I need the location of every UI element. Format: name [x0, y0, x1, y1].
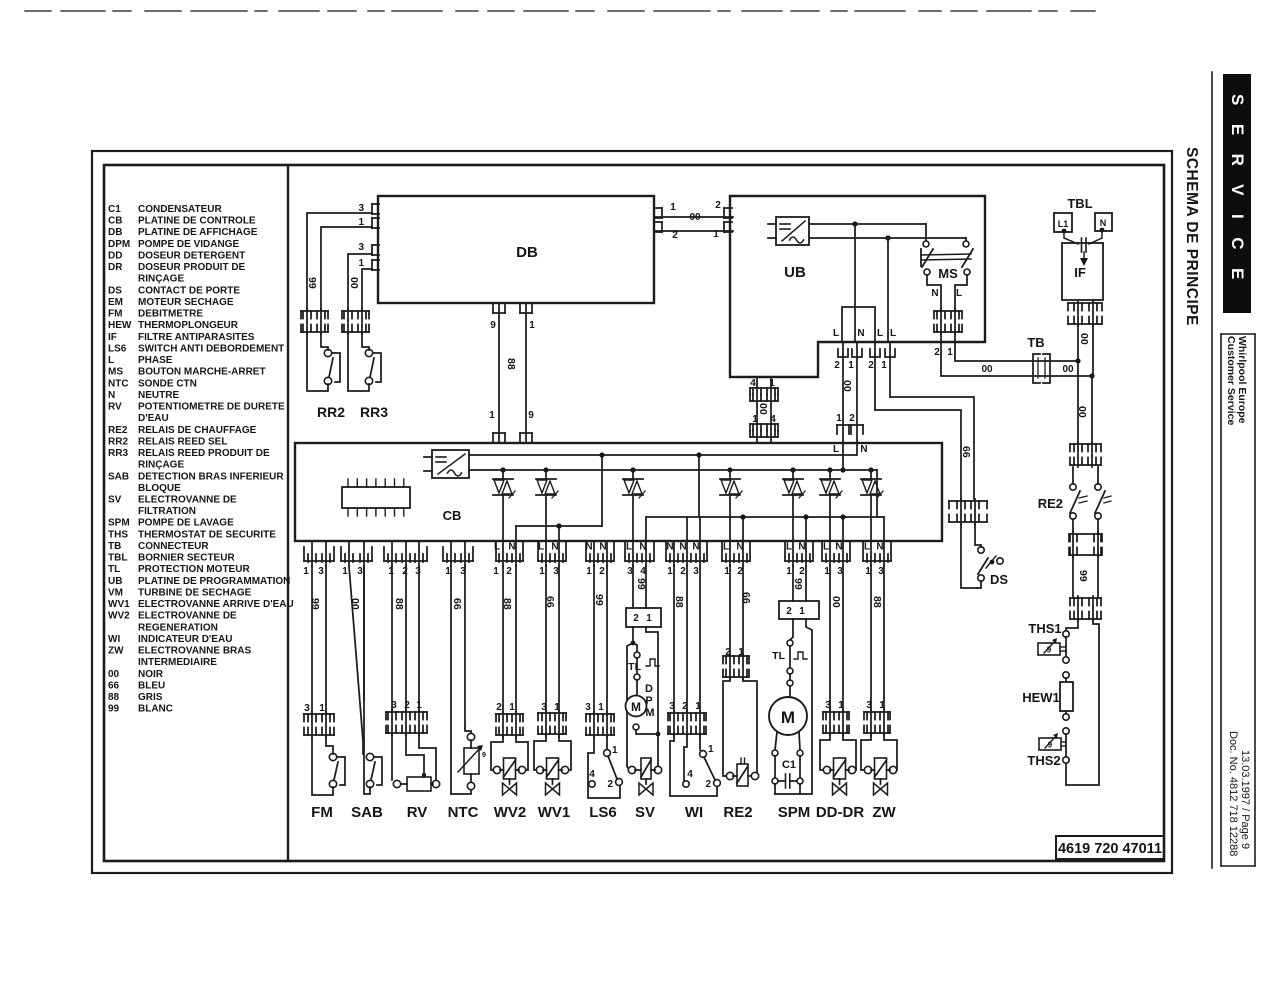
svg-text:THERMOSTAT DE SECURITE: THERMOSTAT DE SECURITE [138, 529, 276, 540]
svg-text:DOSEUR PRODUIT DE: DOSEUR PRODUIT DE [138, 262, 246, 273]
svg-text:ELECTROVANNE DE: ELECTROVANNE DE [138, 611, 237, 622]
svg-text:RELAIS REED SEL: RELAIS REED SEL [138, 436, 227, 447]
svg-text:1: 1 [881, 360, 887, 371]
svg-text:2: 2 [705, 779, 711, 790]
svg-text:N: N [679, 542, 686, 553]
svg-text:L: L [877, 328, 883, 339]
svg-text:FM: FM [108, 309, 122, 320]
svg-text:THS2: THS2 [1027, 753, 1060, 768]
svg-text:L1: L1 [1058, 219, 1069, 229]
svg-text:D'EAU: D'EAU [138, 413, 169, 424]
svg-text:REGENERATION: REGENERATION [138, 622, 218, 633]
svg-text:N: N [931, 288, 938, 299]
svg-text:TBL: TBL [1067, 196, 1092, 211]
svg-text:IF: IF [108, 332, 117, 343]
svg-text:BLOQUE: BLOQUE [138, 483, 181, 494]
svg-text:3: 3 [693, 566, 699, 577]
svg-text:L: L [890, 328, 896, 339]
svg-text:WV1: WV1 [108, 599, 130, 610]
svg-text:SPM: SPM [778, 804, 811, 821]
svg-text:3: 3 [318, 566, 324, 577]
svg-text:M: M [631, 700, 641, 714]
svg-text:TL: TL [628, 661, 641, 673]
svg-text:N: N [835, 542, 842, 553]
svg-text:RELAIS REED PRODUIT DE: RELAIS REED PRODUIT DE [138, 448, 270, 459]
svg-text:RE2: RE2 [1038, 496, 1063, 511]
svg-text:88: 88 [501, 598, 513, 610]
svg-text:1: 1 [529, 320, 535, 331]
svg-text:Doc. No. 4812 718 12288: Doc. No. 4812 718 12288 [1227, 731, 1239, 856]
svg-text:66: 66 [740, 592, 752, 604]
svg-text:RE2: RE2 [723, 804, 752, 821]
svg-text:RR3: RR3 [108, 448, 128, 459]
svg-text:9: 9 [528, 410, 534, 421]
svg-text:1: 1 [303, 566, 309, 577]
svg-text:TURBINE DE SECHAGE: TURBINE DE SECHAGE [138, 588, 252, 599]
svg-text:2: 2 [849, 413, 855, 424]
svg-text:L: L [823, 542, 829, 553]
svg-text:SPM: SPM [108, 518, 130, 529]
svg-text:1: 1 [947, 347, 953, 358]
svg-text:THS: THS [108, 529, 128, 540]
svg-text:PLATINE DE AFFICHAGE: PLATINE DE AFFICHAGE [138, 227, 258, 238]
svg-text:WV2: WV2 [108, 611, 130, 622]
svg-text:L: L [956, 288, 962, 299]
svg-text:FM: FM [311, 804, 333, 821]
svg-text:C1: C1 [108, 204, 121, 215]
svg-text:THS1: THS1 [1028, 621, 1061, 636]
svg-text:2: 2 [680, 566, 686, 577]
svg-text:GRIS: GRIS [138, 692, 163, 703]
svg-text:EM: EM [108, 297, 123, 308]
svg-text:SAB: SAB [108, 471, 129, 482]
svg-text:2: 2 [496, 702, 502, 713]
svg-text:00: 00 [757, 403, 769, 415]
svg-text:SV: SV [108, 495, 122, 506]
svg-text:WV2: WV2 [494, 804, 527, 821]
svg-text:2: 2 [834, 360, 840, 371]
svg-text:N: N [798, 542, 805, 553]
svg-text:88: 88 [871, 596, 883, 608]
svg-text:1: 1 [539, 566, 545, 577]
svg-text:N: N [692, 542, 699, 553]
svg-text:DR: DR [108, 262, 123, 273]
svg-text:TL: TL [772, 650, 785, 662]
svg-text:N: N [876, 542, 883, 553]
svg-text:99: 99 [309, 598, 321, 610]
svg-text:1: 1 [489, 410, 495, 421]
svg-text:66: 66 [960, 446, 972, 458]
svg-text:N: N [108, 390, 115, 401]
svg-text:00: 00 [830, 596, 842, 608]
svg-text:CB: CB [443, 508, 462, 523]
svg-text:SERVICE: SERVICE [1228, 94, 1247, 298]
svg-text:SWITCH ANTI DEBORDEMENT: SWITCH ANTI DEBORDEMENT [138, 343, 284, 354]
svg-text:L: L [786, 542, 792, 553]
svg-text:2: 2 [506, 566, 512, 577]
svg-text:DD-DR: DD-DR [816, 804, 864, 821]
svg-text:TB: TB [108, 541, 121, 552]
svg-text:RELAIS DE CHAUFFAGE: RELAIS DE CHAUFFAGE [138, 425, 257, 436]
svg-text:00: 00 [108, 669, 120, 680]
svg-text:POMPE DE VIDANGE: POMPE DE VIDANGE [138, 239, 239, 250]
svg-text:MS: MS [938, 266, 958, 281]
svg-text:POMPE DE LAVAGE: POMPE DE LAVAGE [138, 518, 234, 529]
svg-text:99: 99 [792, 578, 804, 590]
svg-text:TBL: TBL [108, 553, 127, 564]
svg-text:SAB: SAB [351, 804, 383, 821]
svg-text:DOSEUR DETERGENT: DOSEUR DETERGENT [138, 251, 245, 262]
svg-text:INDICATEUR D'EAU: INDICATEUR D'EAU [138, 634, 232, 645]
svg-text:N: N [666, 542, 673, 553]
svg-text:MS: MS [108, 367, 123, 378]
svg-text:L: L [864, 542, 870, 553]
svg-text:CB: CB [108, 216, 122, 227]
svg-text:CONNECTEUR: CONNECTEUR [138, 541, 209, 552]
svg-text:2: 2 [599, 566, 605, 577]
svg-text:TL: TL [108, 564, 120, 575]
svg-text:DS: DS [990, 572, 1008, 587]
svg-text:2: 2 [868, 360, 874, 371]
svg-text:N: N [1100, 218, 1107, 228]
svg-text:2: 2 [633, 613, 639, 624]
svg-text:LS6: LS6 [108, 343, 127, 354]
svg-text:L: L [108, 355, 114, 366]
svg-text:BLEU: BLEU [138, 680, 165, 691]
svg-text:00: 00 [981, 364, 993, 375]
svg-text:BLANC: BLANC [138, 704, 173, 715]
svg-text:88: 88 [393, 598, 405, 610]
svg-text:PHASE: PHASE [138, 355, 173, 366]
svg-text:2: 2 [404, 700, 410, 711]
svg-text:1: 1 [667, 566, 673, 577]
svg-text:00: 00 [1062, 364, 1074, 375]
svg-text:N: N [508, 542, 515, 553]
svg-text:L: L [723, 542, 729, 553]
svg-text:NEUTRE: NEUTRE [138, 390, 179, 401]
svg-text:2: 2 [607, 779, 613, 790]
svg-text:M: M [781, 708, 795, 727]
svg-text:L: L [538, 542, 544, 553]
svg-text:4619 720 47011: 4619 720 47011 [1058, 841, 1162, 857]
svg-text:RV: RV [108, 402, 122, 413]
svg-text:1: 1 [848, 360, 854, 371]
svg-text:3: 3 [585, 702, 591, 713]
svg-text:M: M [645, 707, 654, 719]
svg-text:NOIR: NOIR [138, 669, 164, 680]
svg-text:WI: WI [108, 634, 120, 645]
svg-text:ZW: ZW [108, 646, 124, 657]
svg-text:CONDENSATEUR: CONDENSATEUR [138, 204, 222, 215]
svg-text:MOTEUR SECHAGE: MOTEUR SECHAGE [138, 297, 234, 308]
svg-text:3: 3 [357, 566, 363, 577]
svg-text:66: 66 [451, 598, 463, 610]
svg-text:D: D [645, 683, 653, 695]
svg-text:POTENTIOMETRE DE DURETE: POTENTIOMETRE DE DURETE [138, 402, 285, 413]
svg-text:99: 99 [108, 704, 120, 715]
svg-text:PLATINE DE PROGRAMMATION: PLATINE DE PROGRAMMATION [138, 576, 290, 587]
svg-text:N: N [857, 328, 864, 339]
svg-text:UB: UB [108, 576, 122, 587]
svg-text:1: 1 [612, 745, 618, 756]
svg-text:DS: DS [108, 285, 122, 296]
svg-text:3: 3 [304, 703, 310, 714]
svg-text:DB: DB [108, 227, 122, 238]
svg-text:DB: DB [516, 244, 538, 261]
svg-text:66: 66 [544, 596, 556, 608]
svg-text:L: L [833, 328, 839, 339]
svg-text:RV: RV [407, 804, 428, 821]
svg-text:FILTRE ANTIPARASITES: FILTRE ANTIPARASITES [138, 332, 255, 343]
svg-text:66: 66 [108, 680, 120, 691]
svg-text:BOUTON MARCHE-ARRET: BOUTON MARCHE-ARRET [138, 367, 266, 378]
svg-text:N: N [599, 542, 606, 553]
svg-text:00: 00 [1078, 333, 1090, 345]
svg-text:RR3: RR3 [360, 404, 388, 420]
svg-text:L: L [494, 542, 500, 553]
svg-text:99: 99 [306, 277, 318, 289]
svg-text:PROTECTION MOTEUR: PROTECTION MOTEUR [138, 564, 250, 575]
svg-text:1: 1 [799, 606, 805, 617]
svg-text:WI: WI [685, 804, 703, 821]
svg-text:BORNIER SECTEUR: BORNIER SECTEUR [138, 553, 235, 564]
svg-text:N: N [860, 444, 867, 455]
svg-text:00: 00 [1076, 406, 1088, 418]
svg-text:9: 9 [490, 320, 496, 331]
svg-text:P: P [645, 695, 652, 707]
svg-text:Customer Service: Customer Service [1225, 336, 1237, 425]
svg-text:1: 1 [670, 202, 676, 213]
svg-text:13.03.1997 / Page 9: 13.03.1997 / Page 9 [1239, 750, 1251, 849]
svg-text:NTC: NTC [108, 378, 129, 389]
svg-text:4: 4 [687, 769, 693, 780]
svg-text:WV1: WV1 [538, 804, 571, 821]
svg-text:NTC: NTC [448, 804, 479, 821]
svg-text:1: 1 [493, 566, 499, 577]
svg-text:1: 1 [646, 613, 652, 624]
svg-text:LS6: LS6 [589, 804, 617, 821]
svg-text:1: 1 [713, 229, 719, 240]
svg-text:2: 2 [934, 347, 940, 358]
svg-text:CONTACT DE PORTE: CONTACT DE PORTE [138, 285, 240, 296]
svg-text:2: 2 [672, 230, 678, 241]
svg-text:88: 88 [673, 596, 685, 608]
svg-text:THERMOPLONGEUR: THERMOPLONGEUR [138, 320, 239, 331]
svg-text:RINÇAGE: RINÇAGE [138, 460, 184, 471]
svg-text:RE2: RE2 [108, 425, 128, 436]
svg-text:L: L [626, 542, 632, 553]
svg-text:88: 88 [505, 358, 517, 370]
svg-text:2: 2 [786, 606, 792, 617]
svg-text:1: 1 [836, 413, 842, 424]
svg-text:DEBITMETRE: DEBITMETRE [138, 309, 203, 320]
svg-text:9: 9 [1047, 646, 1052, 655]
svg-text:IF: IF [1074, 265, 1086, 280]
svg-text:HEW1: HEW1 [1022, 690, 1060, 705]
svg-text:1: 1 [509, 702, 515, 713]
svg-text:88: 88 [108, 692, 120, 703]
svg-text:TB: TB [1027, 335, 1044, 350]
svg-text:00: 00 [841, 380, 853, 392]
svg-text:SCHEMA DE PRINCIPE: SCHEMA DE PRINCIPE [1183, 147, 1200, 326]
svg-text:RR2: RR2 [317, 404, 345, 420]
svg-text:FILTRATION: FILTRATION [138, 506, 196, 517]
svg-text:DPM: DPM [108, 239, 130, 250]
svg-text:1: 1 [598, 702, 604, 713]
svg-text:99: 99 [1077, 570, 1089, 582]
svg-text:DETECTION BRAS INFERIEUR: DETECTION BRAS INFERIEUR [138, 471, 284, 482]
svg-text:DD: DD [108, 251, 122, 262]
svg-text:1: 1 [342, 566, 348, 577]
svg-text:9: 9 [1048, 741, 1053, 750]
svg-text:UB: UB [784, 264, 806, 281]
svg-text:00: 00 [348, 277, 360, 289]
svg-text:N: N [585, 542, 592, 553]
svg-text:1: 1 [586, 566, 592, 577]
svg-text:HEW: HEW [108, 320, 132, 331]
svg-text:SV: SV [635, 804, 655, 821]
svg-text:3: 3 [358, 242, 364, 253]
svg-text:VM: VM [108, 588, 123, 599]
svg-text:PLATINE DE CONTROLE: PLATINE DE CONTROLE [138, 216, 256, 227]
svg-text:1: 1 [358, 258, 364, 269]
svg-text:99: 99 [593, 594, 605, 606]
svg-text:N: N [551, 542, 558, 553]
svg-text:RINÇAGE: RINÇAGE [138, 274, 184, 285]
svg-text:ELECTROVANNE DE: ELECTROVANNE DE [138, 495, 237, 506]
svg-text:2: 2 [799, 566, 805, 577]
svg-text:ZW: ZW [872, 804, 896, 821]
svg-text:L: L [833, 444, 839, 455]
svg-text:INTERMEDIAIRE: INTERMEDIAIRE [138, 657, 217, 668]
svg-text:RR2: RR2 [108, 436, 128, 447]
svg-text:1: 1 [786, 566, 792, 577]
svg-text:C1: C1 [782, 759, 796, 771]
svg-text:00: 00 [349, 598, 361, 610]
svg-text:00: 00 [689, 212, 701, 223]
svg-text:1: 1 [708, 744, 714, 755]
svg-text:ELECTROVANNE BRAS: ELECTROVANNE BRAS [138, 646, 251, 657]
svg-text:2: 2 [715, 200, 721, 211]
svg-text:ELECTROVANNE ARRIVE D'EAU: ELECTROVANNE ARRIVE D'EAU [138, 599, 294, 610]
svg-text:9: 9 [482, 752, 486, 759]
svg-text:99: 99 [635, 578, 647, 590]
svg-text:4: 4 [589, 769, 595, 780]
svg-text:SONDE CTN: SONDE CTN [138, 378, 197, 389]
svg-text:1: 1 [319, 703, 325, 714]
